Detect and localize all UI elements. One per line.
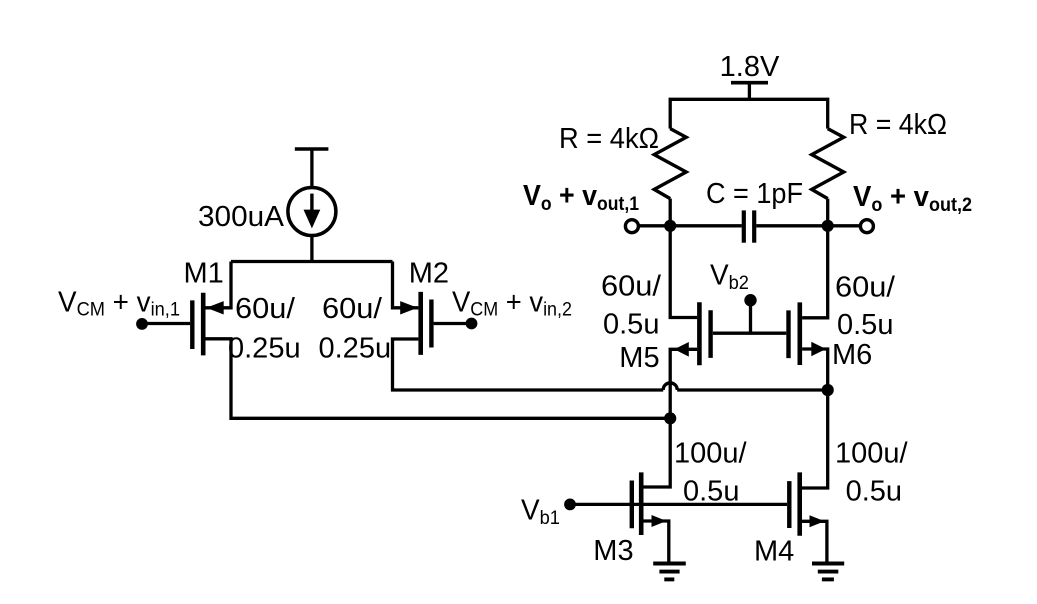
node B junction dot [822, 384, 834, 396]
transistor M3 [632, 472, 669, 561]
supply bar above current source [295, 149, 329, 188]
svg-text:M2: M2 [409, 257, 449, 289]
wire Vb1 to gates M3 M4 [570, 503, 787, 506]
wire node left to capacitor [670, 224, 742, 227]
wire M2 source up to tail [393, 262, 419, 308]
svg-text:0.25u: 0.25u [228, 333, 301, 365]
wire tail rail [231, 260, 393, 263]
wire hop arc [663, 383, 677, 390]
transistor M1 [136, 293, 224, 356]
supply bar 1.8V [731, 83, 768, 100]
svg-text:0.5u: 0.5u [837, 309, 893, 341]
capacitor C plates [744, 210, 754, 242]
wire node right to terminal [828, 224, 861, 227]
wire current source to tail rail [310, 236, 313, 262]
svg-text:0.5u: 0.5u [603, 309, 659, 341]
wire M5 source down to M3 drain [644, 349, 698, 487]
transistor M2 [400, 292, 477, 355]
svg-text:60u/: 60u/ [322, 293, 383, 325]
svg-text:M6: M6 [832, 339, 872, 371]
node output left junction dot [664, 220, 676, 232]
transistor M4 [789, 472, 827, 561]
wire resistor right to node [826, 199, 829, 226]
wire capacitor to node right [756, 224, 828, 227]
wire gate interconnect M5 M6 [713, 332, 787, 335]
svg-text:M3: M3 [593, 535, 633, 567]
terminal Vout1 open circle [625, 220, 638, 233]
svg-text:1.8V: 1.8V [720, 51, 780, 83]
current source arrow [304, 194, 321, 229]
svg-text:0.25u: 0.25u [319, 333, 392, 365]
wire node right down to M6 drain [802, 226, 828, 318]
svg-text:C = 1pF: C = 1pF [706, 178, 803, 210]
svg-text:R = 4kΩ: R = 4kΩ [559, 123, 659, 155]
node Vb1 dot [564, 499, 576, 511]
current source I 300uA circle [288, 188, 336, 236]
svg-text:60u/: 60u/ [601, 271, 662, 303]
resistor R right [812, 129, 844, 199]
wire M6 source down to M4 drain [802, 349, 828, 488]
resistor R left [654, 129, 686, 199]
svg-text:0.5u: 0.5u [846, 476, 902, 508]
svg-text:60u/: 60u/ [235, 293, 296, 325]
svg-text:M5: M5 [619, 342, 659, 374]
node Vb2 dot [744, 294, 756, 306]
wire M1 drain to node A [205, 339, 670, 419]
svg-text:M1: M1 [184, 257, 224, 289]
ground M4 [812, 564, 844, 580]
node A junction dot [664, 412, 676, 424]
ground M3 [653, 564, 686, 580]
wire top rail [670, 99, 828, 128]
svg-text:R = 4kΩ: R = 4kΩ [849, 109, 947, 141]
wire node left down to M5 drain [670, 226, 697, 318]
svg-text:100u/: 100u/ [674, 437, 748, 469]
wire resistor left to node [669, 199, 672, 226]
svg-text:300uA: 300uA [198, 201, 285, 233]
svg-text:100u/: 100u/ [835, 437, 909, 469]
wire M2 drain to node B with hop [393, 339, 828, 390]
wire terminal to node left [639, 224, 671, 227]
svg-text:0.5u: 0.5u [683, 476, 739, 508]
wire M1 source up to tail [205, 262, 231, 308]
terminal Vout2 open circle [860, 220, 873, 233]
svg-text:60u/: 60u/ [835, 272, 896, 304]
node output right junction dot [822, 220, 834, 232]
wire Vb2 stub [749, 300, 752, 333]
transistor M6 [789, 302, 826, 365]
transistor M5 [674, 302, 710, 365]
svg-text:M4: M4 [754, 535, 794, 567]
